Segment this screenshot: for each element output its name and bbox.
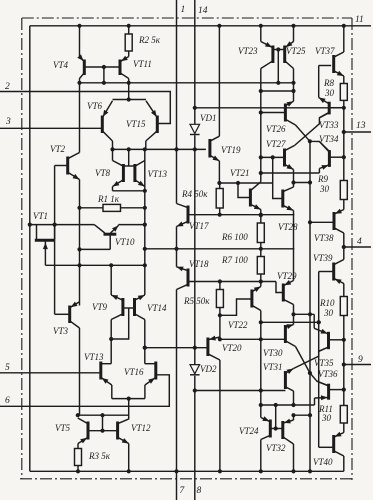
- wire R1 left: [80, 207, 104, 209]
- wire VT37 collector riser: [343, 26, 345, 52]
- wire VT8/VT13 base riser: [128, 149, 130, 166]
- node column corner to VT14: [143, 263, 147, 267]
- transistor VT3: [70, 302, 80, 328]
- wire VT35 emitter riser: [313, 314, 315, 328]
- node VT25 emitter at rail: [291, 24, 295, 28]
- node VD1 to first stage wire: [193, 147, 197, 151]
- wire VT5 emitter to R3: [77, 444, 79, 449]
- node pin 4 node: [342, 245, 346, 249]
- node VT32 top: [291, 413, 295, 417]
- wire VT11 collector to diff pair tail: [128, 79, 130, 100]
- wire VT1 node: [30, 224, 94, 226]
- wire VT21 collector riser: [260, 174, 262, 182]
- wire internal mid rail: [145, 248, 294, 250]
- node VT6 collector load: [110, 147, 114, 151]
- diode VD2: [190, 365, 200, 375]
- resistor R6: [257, 223, 264, 243]
- svg-text:R8: R8: [323, 78, 334, 88]
- node VT18 base wire: [259, 279, 263, 283]
- wire column to R11: [343, 390, 345, 406]
- wire base tie drop to collector wire: [103, 67, 105, 83]
- transistor VT12: [118, 419, 129, 444]
- wire VT28 collector riser: [293, 183, 295, 188]
- resistor R1: [103, 204, 121, 211]
- transistor VT18: [177, 267, 189, 290]
- wire VT29 collector drop: [293, 305, 295, 315]
- wire top supply rail: [30, 25, 371, 27]
- node emitter join on right column: [143, 189, 147, 193]
- svg-text:9: 9: [358, 355, 363, 365]
- wire VT4/VT11 base tie: [84, 66, 120, 68]
- wire VT25 emitter riser: [293, 26, 295, 42]
- wire VT9/VT14 base tie: [123, 307, 135, 309]
- wire VT39 base: [319, 271, 334, 273]
- resistor R7: [257, 257, 264, 275]
- wire stub to column bottom: [294, 414, 311, 416]
- wire pin 13 lead: [344, 131, 371, 133]
- cross-couple VT26 collector to VT34 collector: [296, 125, 330, 151]
- resistor R4: [216, 189, 223, 209]
- node base tie: [276, 47, 280, 51]
- svg-text:R10: R10: [319, 298, 335, 308]
- wire VT26 base stub: [261, 112, 286, 114]
- resistor R5: [216, 290, 223, 308]
- svg-text:VT10: VT10: [115, 237, 135, 247]
- wire VT27 base stub: [261, 156, 285, 158]
- wire VT8 collector column: [112, 149, 114, 160]
- wire VT8 emitter drop: [112, 187, 114, 191]
- transistor VT25: [285, 41, 294, 68]
- transistor VT19: [210, 136, 220, 161]
- node output drive on base column: [317, 320, 321, 324]
- transistor VT11: [120, 56, 129, 79]
- node VT36 base on column: [342, 388, 346, 392]
- wire pin 4: [344, 246, 371, 248]
- wire VT29 base corner: [276, 282, 283, 293]
- node bias wire end: [291, 81, 295, 85]
- resistor R9: [340, 181, 347, 200]
- wire base tie drop: [111, 308, 129, 339]
- svg-text:3: 3: [5, 117, 11, 127]
- wire VT32 emitter to ground: [293, 444, 295, 471]
- transistor VT37: [334, 52, 344, 76]
- transistor VT6: [102, 101, 112, 141]
- wire VT8/VT13 emitter join: [113, 190, 145, 192]
- wire VT28 base: [273, 183, 283, 199]
- node VD2 wire on gain column: [259, 388, 263, 392]
- svg-text:30: 30: [324, 88, 335, 98]
- wire R5 riser: [219, 282, 221, 290]
- node second pair tail: [127, 397, 131, 401]
- wire VT6 collector riser: [112, 141, 114, 149]
- wire VT9 column to VT13 collector: [110, 320, 112, 364]
- svg-text:R4 50к: R4 50к: [181, 189, 208, 199]
- node VT19 collector at rail: [217, 24, 221, 28]
- transistor VT21: [250, 182, 260, 210]
- node VT9 top: [109, 263, 113, 267]
- node VT4 collector: [77, 81, 81, 85]
- wire VT15 collector riser: [145, 141, 147, 149]
- svg-text:R2 5к: R2 5к: [138, 35, 161, 45]
- svg-text:VT18: VT18: [189, 259, 209, 269]
- wire pin 5 input: [0, 372, 101, 374]
- node VT20 base from second stage: [143, 346, 147, 350]
- node diff pair tail: [127, 97, 131, 101]
- wire VT8/VT13 base tie bar: [123, 165, 134, 167]
- transistor VT38: [334, 209, 344, 233]
- node VT21 base tap: [236, 181, 240, 185]
- wire VT17 base rail: [188, 214, 294, 216]
- wire base drop: [102, 415, 104, 431]
- node drive on gain column: [259, 337, 263, 341]
- wire VT1 emitter rail to second stage: [45, 264, 144, 266]
- svg-text:VT19: VT19: [221, 145, 241, 155]
- wire VT4 collector bias wire to mirror pair: [80, 82, 294, 84]
- wire gain column lower: [260, 322, 262, 417]
- wire stub to VT35 emitter riser: [294, 313, 315, 315]
- node output on base column: [317, 320, 321, 324]
- wire VT16 emitter drop: [144, 385, 146, 399]
- wire left rail: [29, 26, 31, 472]
- wire VT29 emitter riser: [293, 249, 295, 281]
- node R6 R7 junction on internal rail: [259, 247, 263, 251]
- wire VT22 collector drop: [260, 311, 262, 323]
- svg-text:VT13: VT13: [84, 352, 104, 362]
- node pin9 on column: [342, 362, 346, 366]
- wire VT13 emitter drop: [111, 385, 113, 399]
- wire VT22 output to VT39/VT40 bases: [261, 321, 319, 323]
- svg-text:1: 1: [181, 5, 186, 15]
- svg-text:VT3: VT3: [53, 326, 69, 336]
- wire emitter node: [219, 182, 272, 184]
- transistor VT24: [261, 416, 271, 439]
- node VT24 base drop top: [274, 403, 278, 407]
- svg-text:VT37: VT37: [315, 46, 335, 56]
- wire VT19 collector riser to top rail: [218, 26, 220, 136]
- wire R2 to VT11 emitter: [128, 51, 130, 57]
- transistor VT15: [146, 101, 158, 141]
- wire VT24/VT32 base tie: [270, 428, 283, 430]
- wire R6 bottom: [260, 243, 262, 257]
- wire VT10 base down-left: [80, 248, 111, 250]
- wire VT28 emitter drop to rail: [293, 211, 295, 249]
- wire R10 bottom to VT35 base node: [343, 316, 345, 340]
- wire VT12 emitter to ground: [128, 444, 130, 472]
- svg-text:VT12: VT12: [131, 423, 151, 433]
- node cross node top: [308, 139, 312, 143]
- wire VT20 collector node: [219, 337, 221, 339]
- node VT1 base on wire: [53, 223, 57, 227]
- wire VT38 emitter to pin4: [343, 233, 345, 247]
- svg-text:30: 30: [319, 184, 330, 194]
- wire VT32 top riser: [293, 415, 295, 420]
- wire collector tie stub: [261, 90, 294, 92]
- wire VT38 base: [310, 221, 334, 223]
- svg-text:VT5: VT5: [55, 423, 71, 433]
- wire R5 bottom to VT20 collector: [219, 308, 221, 340]
- svg-text:8: 8: [197, 486, 202, 496]
- transistor VT39: [334, 260, 344, 285]
- svg-text:VT25: VT25: [286, 46, 306, 56]
- node R2 at top rail: [127, 24, 131, 28]
- node VT17 emitter to rail: [174, 247, 178, 251]
- wire VT39 emitter to R10: [343, 284, 345, 297]
- svg-text:VT15: VT15: [126, 119, 146, 129]
- transistor VT23: [261, 42, 273, 69]
- node VT3 collector on rail: [77, 263, 81, 267]
- svg-text:VT39: VT39: [313, 253, 333, 263]
- svg-text:13: 13: [356, 121, 366, 131]
- pin 14 / pin 8 vertical line: [194, 0, 196, 500]
- wire diff pair emitter rail: [113, 99, 147, 101]
- node VT20 emitter ground: [218, 469, 222, 473]
- wire VT23 emitter riser: [260, 26, 262, 42]
- node VD1 to bias rail: [193, 106, 197, 110]
- pin 1 / pin 7 vertical line: [176, 0, 178, 500]
- wire VT35 base: [329, 339, 344, 341]
- node R3 ground: [76, 469, 80, 473]
- wire bias rail VD1 to R8: [195, 107, 344, 109]
- transistor VT16: [145, 362, 156, 386]
- svg-text:6: 6: [5, 396, 10, 406]
- wire VT40 base: [319, 446, 334, 448]
- transistor VT13: [101, 362, 112, 386]
- node base tie drop: [100, 429, 104, 433]
- transistor VT2: [68, 153, 80, 180]
- wire base tie drop: [277, 50, 279, 83]
- svg-text:VT33: VT33: [319, 120, 339, 130]
- wire VT23 collector column: [260, 69, 262, 175]
- transistor VT32: [283, 419, 294, 444]
- node VT26 base: [259, 110, 263, 114]
- svg-text:VT31: VT31: [263, 362, 283, 372]
- wire VT2 base: [55, 165, 68, 167]
- svg-text:R3 5к: R3 5к: [88, 451, 111, 461]
- transistor VT34: [319, 142, 329, 170]
- transistor VT31: [285, 369, 293, 392]
- svg-text:VT22: VT22: [228, 320, 248, 330]
- svg-text:30: 30: [323, 308, 334, 318]
- node base tie drop: [102, 65, 106, 69]
- svg-text:VT20: VT20: [222, 343, 242, 353]
- wire VT36 emitter elbow: [314, 398, 316, 405]
- node VT19 emitter R4: [217, 181, 221, 185]
- transistor VT22: [252, 287, 261, 311]
- wire column to VT36 base: [343, 365, 345, 390]
- wire VT27 emitter drop: [293, 170, 295, 183]
- node VT12 ground: [127, 469, 131, 473]
- wire VT31 emitter drop: [293, 391, 295, 405]
- node VT21 emitter: [259, 213, 263, 217]
- wire VT4 emitter riser: [79, 26, 81, 57]
- wire VT14 riser: [144, 265, 146, 295]
- node pin1 line joins first-stage load wire: [174, 147, 178, 151]
- wire second pair tail: [112, 398, 145, 400]
- wire VT24 base drop: [275, 405, 277, 429]
- node VT21 collector junction: [259, 171, 263, 175]
- wire VT21 emitter drop: [260, 210, 262, 224]
- svg-text:VT34: VT34: [319, 134, 339, 144]
- wire VD2 node wire: [195, 390, 286, 392]
- wire VT34 emitter elbow: [318, 169, 320, 174]
- svg-text:2: 2: [5, 82, 10, 92]
- wire R2 riser top: [128, 26, 130, 34]
- wire pin 2 input: [0, 92, 170, 124]
- svg-text:R5 50к: R5 50к: [183, 296, 210, 306]
- node VT14/VT16 collector to output wire: [143, 346, 147, 350]
- node base tie on VT9 column: [109, 337, 113, 341]
- wire VT3 left column lower: [79, 328, 81, 415]
- transistor VT8: [113, 161, 124, 187]
- wire VT15 load column down: [144, 149, 146, 265]
- svg-text:VT21: VT21: [230, 168, 250, 178]
- node column joins internal rail: [143, 247, 147, 251]
- wire VT30 emitter riser: [293, 314, 295, 324]
- svg-text:VT2: VT2: [50, 144, 66, 154]
- wire VT20 base: [145, 347, 208, 349]
- resistor R3: [75, 449, 82, 466]
- wire VT36 base: [329, 389, 344, 391]
- wire R3 to ground: [77, 466, 79, 472]
- wire pin 3 input: [0, 127, 102, 129]
- transistor VT1 (rotated): [35, 225, 55, 266]
- node VD2 top to VT20 base wire: [193, 346, 197, 350]
- wire lower bias wire: [261, 404, 315, 406]
- cross-couple VT30 collector to VT36 collector: [296, 347, 329, 386]
- svg-text:VT38: VT38: [314, 233, 334, 243]
- svg-text:VT35: VT35: [314, 358, 334, 368]
- transistor VT13: [135, 161, 145, 187]
- transistor VT40: [334, 432, 344, 456]
- svg-text:VT4: VT4: [53, 60, 69, 70]
- node stub bottom on column: [308, 413, 312, 417]
- wire bottom ground rail: [30, 470, 344, 472]
- svg-text:VT36: VT36: [318, 369, 338, 379]
- transistor VT17: [177, 204, 189, 227]
- cross-couple VT31 collector to VT35 collector: [294, 347, 329, 369]
- wire VT9 riser: [110, 265, 112, 295]
- svg-text:VT1: VT1: [33, 211, 48, 221]
- wire VT22 base link: [220, 299, 252, 315]
- svg-text:VT11: VT11: [133, 59, 152, 69]
- svg-text:VT13: VT13: [148, 169, 168, 179]
- svg-text:VT30: VT30: [263, 348, 283, 358]
- node column ground: [308, 469, 312, 473]
- node VT27 base on gain column: [259, 155, 263, 159]
- wire VT40 emitter to ground corner: [343, 456, 345, 471]
- node stub on column: [308, 312, 312, 316]
- wire VT2 VT3 left column upper: [79, 79, 81, 153]
- svg-text:VD2: VD2: [200, 364, 217, 374]
- svg-text:VT27: VT27: [266, 139, 286, 149]
- wire VT33 base to R8 node: [329, 107, 344, 109]
- wire VT39 collector riser: [343, 247, 345, 260]
- node VT3 column to wire: [76, 413, 80, 417]
- wire long column VT26 cross to ground: [309, 141, 311, 471]
- arrow VT10: [112, 226, 119, 232]
- node R8 bottom on rail: [342, 106, 346, 110]
- wire R1 right: [121, 207, 145, 209]
- transistor VT9: [111, 295, 123, 320]
- node VT29 collector: [291, 312, 295, 316]
- node VT20 collector: [218, 337, 222, 341]
- svg-text:VD1: VD1: [200, 113, 217, 123]
- wire R11 bottom: [343, 423, 345, 433]
- svg-text:VT40: VT40: [313, 457, 333, 467]
- wire VT5/VT12 base tie: [88, 430, 118, 432]
- transistor VT14: [135, 295, 145, 320]
- svg-text:VT28: VT28: [278, 222, 298, 232]
- svg-text:R1 1к: R1 1к: [97, 194, 120, 204]
- wire VT24 emitter to ground: [260, 440, 262, 472]
- transistor VT5: [78, 418, 88, 444]
- wire VT3 base: [55, 313, 70, 315]
- node left rail to VT1 wire: [28, 223, 32, 227]
- svg-text:VT6: VT6: [87, 101, 103, 111]
- transistor VT33: [319, 98, 330, 118]
- resistor R11: [340, 406, 347, 424]
- node VT27 base ties emitter node: [271, 155, 275, 159]
- wire VT37 base drop to VT33 emitter: [318, 66, 320, 98]
- node VT38 base on column: [308, 220, 312, 224]
- transistor VT26: [285, 101, 295, 125]
- node pin7 at ground rail: [174, 469, 178, 473]
- svg-text:VT32: VT32: [266, 443, 286, 453]
- svg-text:VT23: VT23: [238, 46, 258, 56]
- wire VT2 VT3 left column middle: [79, 180, 81, 306]
- svg-text:5: 5: [5, 363, 10, 373]
- node VT31 emitter: [291, 403, 295, 407]
- wire R4 bottom: [219, 208, 221, 215]
- node VT4 emitter at top rail: [77, 24, 81, 28]
- svg-text:VT14: VT14: [147, 303, 167, 313]
- node VT22 collector out: [259, 320, 263, 324]
- svg-text:VT9: VT9: [92, 302, 108, 312]
- wire VT3 output to bottom mirror: [78, 414, 129, 416]
- arrow VT1 emitter: [43, 243, 48, 250]
- wire VT2/VT3 base column: [54, 166, 56, 315]
- node VT11 collector: [127, 81, 131, 85]
- node VT35 base R10 bottom: [342, 338, 346, 342]
- svg-text:R6 100: R6 100: [221, 232, 248, 242]
- wire pin13 column: [343, 108, 345, 181]
- node VT32 ground: [291, 469, 295, 473]
- wire VT19 emitter drop: [218, 161, 220, 183]
- node stub right: [291, 89, 295, 93]
- svg-text:VT8: VT8: [95, 168, 111, 178]
- transistor VT30: [285, 324, 295, 346]
- transistor VT4: [77, 54, 84, 78]
- node R1 right: [143, 206, 147, 210]
- node R1 on VT2 emitter column: [77, 206, 81, 210]
- svg-text:4: 4: [357, 237, 362, 247]
- resistor R2: [125, 34, 132, 51]
- node R6 top wire: [259, 213, 263, 217]
- svg-text:VT17: VT17: [189, 221, 209, 231]
- node VT27 emitter: [291, 180, 295, 184]
- wire VT37 emitter to R8: [343, 76, 345, 84]
- svg-text:14: 14: [198, 6, 208, 16]
- transistor VT10 (rotated): [94, 225, 118, 250]
- node base drop on collector wire: [102, 81, 106, 85]
- node VT24 ground: [259, 469, 263, 473]
- resistor R10: [340, 297, 347, 316]
- wire VT21 base drop: [238, 183, 250, 198]
- wire VT34 base: [329, 156, 343, 158]
- node lower bias left: [259, 403, 263, 407]
- wire R7 bottom: [260, 274, 262, 287]
- svg-text:R9: R9: [317, 174, 328, 184]
